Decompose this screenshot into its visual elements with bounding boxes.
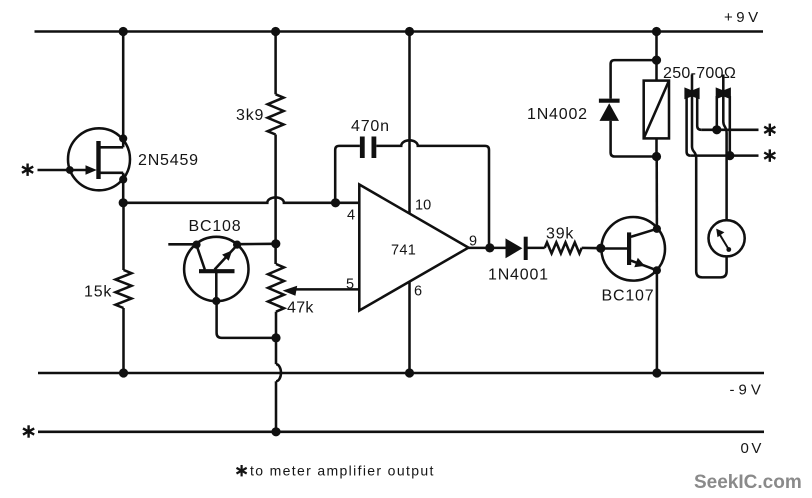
wire BC107 emitter down <box>656 270 659 373</box>
contact 2 right fixed line to H2 <box>729 96 732 156</box>
svg-text:1N4002: 1N4002 <box>527 106 588 123</box>
-9V rail <box>38 372 764 375</box>
node: BC108 collector tap on column <box>271 239 280 248</box>
node: +9V / pin10 <box>405 27 414 36</box>
asterisk footnote <box>237 465 247 476</box>
diode D2 1N4002 <box>599 99 620 103</box>
svg-text:470n: 470n <box>351 118 390 135</box>
contact 1 right fixed line to H1 <box>697 96 701 130</box>
svg-text:47k: 47k <box>287 300 314 317</box>
wire source to pin4 with hop over 3k9 column <box>123 197 359 202</box>
svg-text:3k9: 3k9 <box>236 107 264 124</box>
relay coil 250-700 ohm <box>644 81 669 139</box>
contact 1 left fixed line to H2 <box>687 96 691 156</box>
svg-text:0V: 0V <box>741 440 764 457</box>
node: +9V / relay branch <box>652 27 661 36</box>
node: feedback tap <box>331 198 340 207</box>
transistor Q1 2N5459 (JFET) <box>68 128 130 190</box>
resistor R2 3k9 <box>274 32 277 95</box>
transistor Q3 BC107 <box>601 217 665 281</box>
asterisk H2 <box>764 149 775 161</box>
capacitor C1 470n feedback <box>335 146 360 203</box>
svg-text:BC108: BC108 <box>189 218 242 235</box>
wire gate <box>38 169 70 172</box>
svg-text:2N5459: 2N5459 <box>138 152 199 169</box>
transistor Q2 BC108 <box>184 237 248 301</box>
svg-text:-9V: -9V <box>730 382 765 399</box>
svg-text:15k: 15k <box>84 284 112 301</box>
resistor R1 15k <box>122 203 125 270</box>
node: +9V / 3k9 <box>271 27 280 36</box>
contact 2 left fixed line to H1 <box>716 96 719 130</box>
contact 1 moving line to meter (jog over H2) <box>692 97 727 277</box>
svg-text:5: 5 <box>346 277 354 293</box>
wire H1 first output <box>701 129 758 132</box>
wire output <box>469 247 506 250</box>
op-amp U1 741 <box>359 185 468 311</box>
wiper arrow of 47k <box>294 288 359 291</box>
asterisk input top-left <box>22 164 33 176</box>
hop of 47k column over -9V rail <box>276 364 281 381</box>
wire BC107 collector up <box>655 157 658 229</box>
meter M1 <box>709 220 745 256</box>
node: source node <box>119 198 128 207</box>
svg-text:10: 10 <box>415 198 431 214</box>
wire H2 second output <box>691 154 759 157</box>
base stub wire <box>168 243 196 246</box>
wire to 1N4002 top <box>611 60 657 99</box>
svg-text:to meter amplifier output: to meter amplifier output <box>250 463 435 479</box>
svg-text:4: 4 <box>347 208 355 224</box>
svg-text:BC107: BC107 <box>602 288 655 305</box>
contact 2 moving line to meter top (jog over H1) <box>723 97 726 220</box>
node: -9V / 15k <box>119 368 128 377</box>
node: +9V / JFET drain <box>119 27 128 36</box>
+9V rail <box>35 30 764 33</box>
svg-text:+9V: +9V <box>724 9 762 26</box>
svg-text:1N4001: 1N4001 <box>488 267 549 284</box>
svg-text:6: 6 <box>414 284 422 300</box>
relay contact group 2 <box>722 75 725 98</box>
svg-text:39k: 39k <box>546 226 574 243</box>
asterisk H1 <box>764 124 775 136</box>
node: emitter loop tap <box>271 333 280 342</box>
resistor R4 39k <box>545 242 582 253</box>
wire relay branch from +9V <box>655 32 658 81</box>
node: -9V / pin6 <box>405 368 414 377</box>
wire BC108 emitter loop <box>217 301 276 338</box>
pin 6 line <box>408 282 411 373</box>
svg-text:250-700Ω: 250-700Ω <box>663 65 736 82</box>
pin 10 line <box>408 32 411 214</box>
svg-text:741: 741 <box>391 243 416 259</box>
node: 0V / 47k column <box>271 427 280 436</box>
asterisk input bottom-left <box>23 425 34 437</box>
diode D1 1N4001 <box>506 238 523 258</box>
node: -9V / BC107 emitter <box>652 368 661 377</box>
wire cap to output node with hop over pin10 line <box>376 140 489 248</box>
wire BC108 to column <box>237 243 276 246</box>
0V rail <box>38 431 764 434</box>
relay contact group 1 <box>691 75 694 98</box>
svg-text:SeekIC.com: SeekIC.com <box>694 472 802 493</box>
potentiometer 47k <box>268 264 284 312</box>
